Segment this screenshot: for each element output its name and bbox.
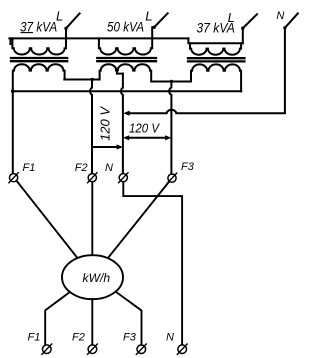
svg-text:50 kVA: 50 kVA xyxy=(107,19,144,34)
wire: HV supply line (top) xyxy=(9,37,188,39)
transformer T2 core xyxy=(97,58,156,61)
transformer T1 core xyxy=(11,58,67,61)
arrowhead dim left xyxy=(123,135,129,140)
wire: supply line corner to T3 primary xyxy=(188,38,242,43)
svg-text:L: L xyxy=(56,8,63,23)
transformer T3 primary winding xyxy=(190,28,243,55)
transformer T1 stub lead xyxy=(9,38,11,44)
wire: meter to bottom F2 xyxy=(91,299,93,345)
svg-text:F2: F2 xyxy=(75,162,88,174)
svg-text:120 V: 120 V xyxy=(99,105,113,141)
terminal F2 (bottom) xyxy=(88,345,97,354)
svg-text:N: N xyxy=(105,162,113,174)
svg-text:120 V: 120 V xyxy=(129,121,161,135)
wire: meter to bottom F3 xyxy=(116,292,142,345)
svg-text:F2: F2 xyxy=(72,332,85,344)
transformer T1 secondary winding xyxy=(13,64,65,91)
arrowhead N rail into N conductor xyxy=(123,111,129,116)
svg-text:F1: F1 xyxy=(28,332,41,344)
terminal F3 (row 1) xyxy=(168,174,176,182)
wire: N rail from N switch (y=113.2) with hop over F3 xyxy=(129,28,285,113)
wire: rail T2.sec-T3.sec (y=81.5) xyxy=(153,81,191,83)
transformer T1 primary winding xyxy=(12,28,66,54)
terminal F1 (row 1) xyxy=(10,174,18,182)
svg-text:F3: F3 xyxy=(181,161,195,173)
transformer T1 label underline xyxy=(21,32,33,34)
meter kWh ellipse xyxy=(62,255,123,299)
wire: F3 conductor (jogs over bus) xyxy=(169,82,171,175)
svg-text:N: N xyxy=(166,331,174,343)
wire: F1 conductor xyxy=(12,91,14,173)
transformer T2 secondary winding xyxy=(100,64,152,81)
wire: rail T1.sec-T2.sec (y=79.5) xyxy=(64,79,99,81)
svg-text:L: L xyxy=(145,9,152,24)
wire: center tap to N conductor xyxy=(117,70,123,73)
terminal F1 (bottom) xyxy=(43,345,52,354)
transformer T3 core xyxy=(188,58,244,61)
svg-text:F3: F3 xyxy=(123,331,137,343)
wire: meter to bottom F1 xyxy=(45,292,70,345)
wire: F1 to meter xyxy=(17,181,78,258)
switch L2 pivot dot xyxy=(153,26,156,29)
switch L1 pivot dot xyxy=(64,27,67,30)
switch L1 blade xyxy=(66,13,80,28)
junction F3 tap xyxy=(170,80,173,83)
svg-text:L: L xyxy=(228,10,235,25)
wire: N detour around meter xyxy=(123,182,182,345)
switch N pivot dot xyxy=(283,26,286,29)
transformer T2 primary winding xyxy=(99,27,152,54)
wire: bus (y=91.2) xyxy=(12,90,241,92)
dimension stub F2-N (y=147) xyxy=(92,146,118,148)
svg-text:F1: F1 xyxy=(23,162,36,174)
wire: N conductor (jogs over bus) xyxy=(121,74,123,174)
arrowhead stub into N conductor xyxy=(117,144,123,149)
terminal N (row 1) xyxy=(119,174,127,182)
switch L3 blade xyxy=(243,14,257,28)
switch L3 pivot dot xyxy=(241,27,244,30)
terminal N (bottom) xyxy=(178,345,187,354)
transformer T2 center tap dot xyxy=(115,68,119,72)
wire: F3 to meter xyxy=(108,182,169,259)
dimension line N-F3 (y=137.8) xyxy=(128,137,166,139)
transformer T3 secondary winding xyxy=(191,64,241,91)
junction F1 on bus xyxy=(11,89,15,93)
terminal F2 (row 1) xyxy=(88,174,96,182)
switch N blade xyxy=(285,13,298,27)
arrowhead dim right xyxy=(165,135,171,140)
wire: F2 conductor (jogs over bus) xyxy=(90,80,92,174)
svg-text:kW/h: kW/h xyxy=(83,271,111,285)
junction F2 tap xyxy=(91,78,94,81)
svg-text:N: N xyxy=(276,10,284,22)
terminal F3 (bottom) xyxy=(137,345,146,354)
switch L2 blade xyxy=(154,13,168,27)
wire: F2 to meter xyxy=(91,182,93,256)
